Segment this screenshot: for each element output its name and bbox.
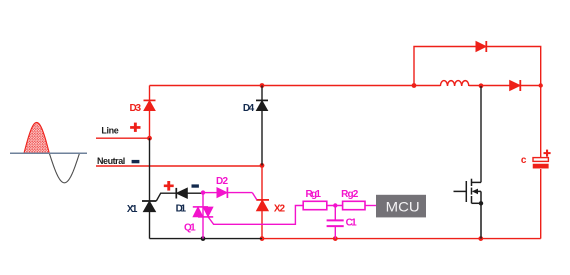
svg-text:D3: D3 (130, 103, 142, 114)
svg-text:Neutral: Neutral (97, 156, 125, 166)
svg-text:Rg2: Rg2 (341, 189, 359, 200)
svg-text:c: c (521, 155, 527, 166)
svg-text:X1: X1 (127, 204, 138, 215)
svg-text:D1: D1 (176, 204, 187, 215)
svg-text:MCU: MCU (386, 198, 420, 214)
svg-text:Q1: Q1 (184, 222, 196, 233)
svg-text:X2: X2 (274, 203, 286, 214)
svg-text:Line: Line (101, 126, 118, 136)
svg-text:C1: C1 (346, 218, 358, 229)
svg-text:D2: D2 (216, 176, 228, 187)
svg-text:D4: D4 (243, 103, 255, 114)
svg-text:Rg1: Rg1 (306, 189, 322, 200)
